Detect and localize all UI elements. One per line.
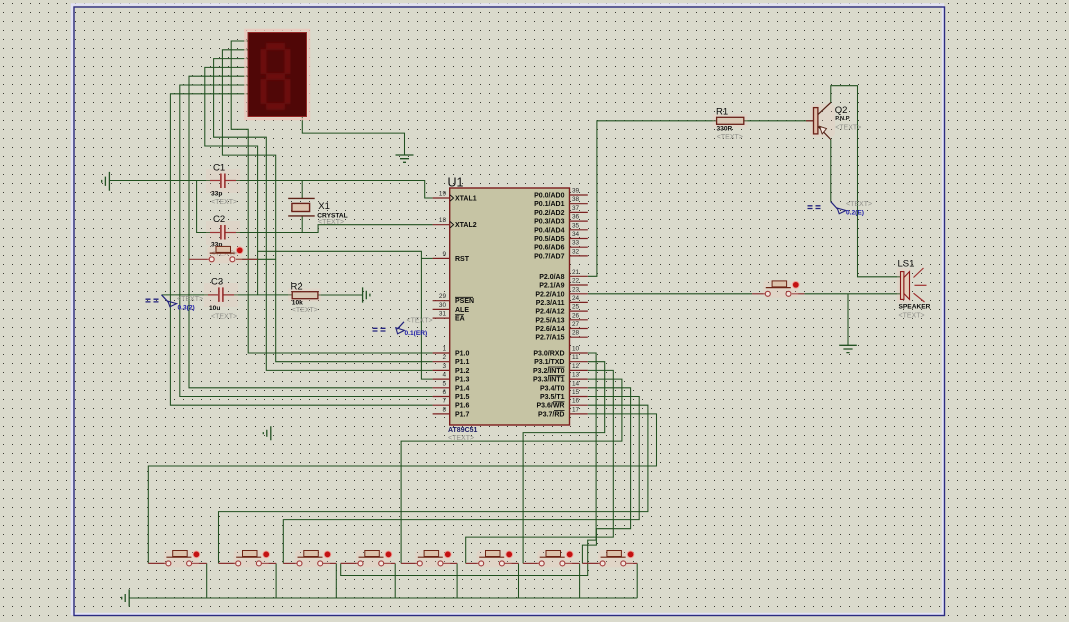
svg-text:U1: U1	[448, 176, 464, 190]
svg-text:P3.7/RD: P3.7/RD	[538, 411, 564, 418]
sheet border frame	[74, 7, 945, 616]
svg-text:P2.2/A10: P2.2/A10	[535, 291, 564, 298]
wire Q2 emitter probe stub	[830, 140, 832, 202]
svg-text:28: 28	[572, 330, 580, 337]
svg-text:P1.2: P1.2	[455, 368, 470, 375]
svg-text:P2.0/A8: P2.0/A8	[539, 274, 564, 281]
svg-text:<TEXT>: <TEXT>	[835, 124, 861, 131]
svg-text:P0.6/AD6: P0.6/AD6	[534, 245, 564, 252]
svg-text:30: 30	[439, 302, 447, 309]
7-segment display DS1	[246, 30, 310, 119]
wire button6 ground drop	[518, 563, 520, 598]
ground under display	[396, 155, 414, 162]
svg-text:0.1(ER): 0.1(ER)	[405, 330, 428, 337]
svg-text:23: 23	[572, 286, 580, 293]
wire P3.1 to button7	[523, 362, 605, 564]
wire display segment f to P1.5	[180, 85, 433, 397]
wire display segment g to P1.6	[170, 94, 432, 405]
capacitor C1	[206, 163, 240, 206]
wire button3 leads	[283, 562, 296, 564]
wire button8 ground drop	[636, 563, 638, 598]
svg-text:<TEXT>: <TEXT>	[292, 307, 318, 314]
voltage probe 0.1(ER)	[373, 317, 433, 337]
wire P3.2 to button6	[466, 370, 614, 563]
svg-text:27: 27	[572, 321, 580, 328]
push button S10	[598, 550, 634, 568]
svg-text:C1: C1	[213, 163, 225, 174]
svg-text:P1.5: P1.5	[455, 394, 470, 401]
svg-text:33: 33	[572, 240, 580, 247]
svg-text:SPEAKER: SPEAKER	[899, 304, 931, 311]
wire button8 leads	[582, 562, 599, 564]
push button S9	[537, 550, 573, 568]
svg-text:10: 10	[572, 346, 580, 353]
push button S1 reset	[207, 246, 243, 264]
svg-text:P0.2/AD2: P0.2/AD2	[534, 210, 564, 217]
voltage probe 0.2(E)	[808, 201, 873, 217]
svg-text:P.N.P: P.N.P	[835, 116, 850, 122]
svg-text:16: 16	[572, 398, 580, 405]
svg-text:26: 26	[572, 312, 580, 319]
svg-text:7: 7	[442, 398, 446, 405]
wire reset button left lead	[189, 258, 209, 260]
wire C1 right to XTAL1	[225, 181, 432, 199]
ground under speaker net	[839, 345, 857, 352]
ground right of R2	[363, 287, 370, 302]
svg-text:P1.6: P1.6	[455, 403, 470, 410]
svg-text:AT89C51: AT89C51	[448, 427, 478, 434]
wire button B to speaker bottom	[804, 293, 900, 295]
svg-text:P3.3/INT1: P3.3/INT1	[533, 377, 565, 384]
wire R1 to Q2 base	[743, 120, 806, 122]
svg-text:18: 18	[439, 217, 447, 224]
svg-text:2: 2	[442, 354, 446, 361]
svg-text:P3.6/WR: P3.6/WR	[536, 403, 564, 410]
wire display segment b to P1.1	[222, 50, 432, 362]
svg-text:P0.1/AD1: P0.1/AD1	[534, 201, 564, 208]
svg-text:RST: RST	[455, 256, 470, 263]
svg-text:P3.1/TXD: P3.1/TXD	[534, 359, 564, 366]
svg-text:P2.5/A13: P2.5/A13	[535, 317, 564, 324]
wire P2.0 to R1	[588, 121, 717, 276]
wire button5 leads	[401, 562, 417, 564]
wire P3.7 to button1	[148, 414, 656, 564]
resistor R1	[713, 107, 748, 142]
svg-text:P0.5/AD5: P0.5/AD5	[534, 236, 564, 243]
svg-text:<TEXT>: <TEXT>	[318, 219, 344, 226]
wire display segment a to P1.0	[231, 41, 432, 353]
wire crystal bottom lead	[301, 216, 303, 233]
wire P3.0 to button4	[341, 353, 596, 576]
svg-text:<TEXT>: <TEXT>	[846, 201, 872, 208]
svg-text:32: 32	[572, 248, 580, 255]
svg-text:P2.7/A15: P2.7/A15	[535, 335, 564, 342]
svg-text:P2.1/A9: P2.1/A9	[539, 283, 564, 290]
svg-text:P3.0/RXD: P3.0/RXD	[533, 351, 564, 358]
microcontroller U1 AT89C51	[433, 176, 588, 443]
svg-text:<TEXT>: <TEXT>	[211, 199, 237, 206]
wire speaker button left lead	[752, 293, 765, 295]
wire Q2 collector to speaker top	[831, 86, 901, 277]
svg-text:8: 8	[442, 406, 446, 413]
wire P3.3 to button5	[401, 379, 622, 563]
wire speaker button right lead	[792, 293, 805, 295]
wire button2 leads	[219, 562, 236, 564]
wire P3.6 to button2	[219, 405, 648, 563]
svg-text:21: 21	[572, 269, 580, 276]
svg-text:Q2: Q2	[835, 105, 848, 116]
svg-text:P2.4/A12: P2.4/A12	[535, 309, 564, 316]
wire button4 ground drop	[394, 563, 396, 598]
wire C2 right to XTAL2	[225, 225, 432, 233]
svg-text:P3.2/INT0: P3.2/INT0	[533, 368, 565, 375]
svg-text:33p: 33p	[211, 191, 222, 198]
wire display common to ground	[302, 117, 404, 156]
wire C2 to C1 net	[197, 181, 220, 233]
wire P3.4 to button8	[582, 388, 630, 564]
transistor Q2	[806, 103, 861, 140]
svg-text:38: 38	[572, 196, 580, 203]
svg-text:P0.4/AD4: P0.4/AD4	[534, 227, 564, 234]
svg-text:R1: R1	[716, 107, 728, 118]
wire button5 ground drop	[456, 563, 458, 598]
svg-text:P2.6/A14: P2.6/A14	[535, 326, 564, 333]
svg-text:14: 14	[572, 380, 580, 387]
svg-text:XTAL2: XTAL2	[455, 222, 477, 229]
wire button6 leads	[466, 562, 479, 564]
svg-text:15: 15	[572, 389, 580, 396]
svg-text:<TEXT>: <TEXT>	[717, 134, 743, 141]
svg-text:0.3(2): 0.3(2)	[178, 305, 195, 312]
wire button A cross link	[236, 258, 276, 260]
svg-text:4: 4	[442, 372, 446, 379]
svg-text:29: 29	[439, 293, 447, 300]
svg-text:<TEXT>: <TEXT>	[211, 313, 237, 320]
wire reset button right lead	[236, 258, 258, 260]
wire P2.2 to button B	[588, 293, 752, 295]
wire C3 right to R2	[224, 294, 292, 296]
push button S4	[234, 550, 270, 568]
svg-text:P0.3/AD3: P0.3/AD3	[534, 219, 564, 226]
svg-text:<TEXT>: <TEXT>	[899, 313, 925, 320]
svg-text:10u: 10u	[209, 305, 220, 312]
svg-text:1: 1	[442, 346, 446, 353]
wire crystal top lead	[301, 181, 303, 199]
wire button4 leads	[341, 562, 358, 564]
svg-text:330R: 330R	[717, 126, 733, 133]
crystal X1	[288, 198, 348, 226]
svg-text:25: 25	[572, 304, 580, 311]
speaker LS1	[897, 259, 931, 320]
wire bottom ground rail	[129, 597, 637, 599]
ground bottom left rail	[122, 589, 130, 606]
svg-text:10k: 10k	[292, 300, 303, 307]
push button S7	[415, 550, 451, 568]
svg-text:P2.3/A11: P2.3/A11	[536, 300, 565, 307]
wire P3.5 to button3	[283, 397, 639, 564]
svg-text:<TEXT>: <TEXT>	[407, 317, 433, 324]
push button S3	[164, 550, 200, 568]
svg-text:37: 37	[572, 205, 580, 212]
svg-text:P1.4: P1.4	[455, 385, 470, 392]
svg-text:9: 9	[442, 251, 446, 258]
wire display segment e to P1.4	[189, 76, 433, 388]
wire display segment d to RST node	[205, 67, 258, 295]
wire button7 leads	[523, 562, 539, 564]
svg-text:39: 39	[572, 188, 580, 195]
svg-text:11: 11	[572, 354, 579, 361]
wire C3 left segment	[162, 294, 218, 296]
push button S6	[356, 550, 392, 568]
svg-text:36: 36	[572, 214, 580, 221]
svg-text:P1.7: P1.7	[455, 411, 470, 418]
svg-text:EA: EA	[455, 316, 465, 323]
svg-text:XTAL1: XTAL1	[455, 196, 477, 203]
voltage probe 0.3(2)	[146, 295, 204, 312]
svg-text:31: 31	[439, 311, 447, 318]
push button S5	[295, 550, 331, 568]
svg-text:P0.0/AD0: P0.0/AD0	[534, 193, 564, 200]
svg-text:P1.0: P1.0	[455, 351, 470, 358]
svg-text:<TEXT>: <TEXT>	[448, 435, 474, 442]
push button S8	[477, 550, 513, 568]
svg-text:3: 3	[442, 363, 446, 370]
svg-text:P3.5/T1: P3.5/T1	[540, 394, 565, 401]
svg-text:17: 17	[572, 406, 580, 413]
svg-text:C2: C2	[213, 214, 225, 225]
svg-text:35: 35	[572, 222, 580, 229]
wire button2 ground drop	[275, 563, 277, 598]
svg-text:12: 12	[572, 363, 580, 370]
wire button7 ground drop	[579, 563, 581, 598]
svg-text:PSEN: PSEN	[455, 298, 474, 305]
wire button1 ground drop	[206, 563, 208, 598]
svg-text:P1.1: P1.1	[455, 359, 470, 366]
svg-text:P1.3: P1.3	[455, 377, 470, 384]
svg-text:6: 6	[442, 389, 446, 396]
capacitor C3	[204, 276, 238, 320]
wire button3 ground drop	[335, 563, 337, 598]
ground floating below chip	[263, 426, 271, 440]
wire button1 leads	[148, 562, 165, 564]
svg-text:19: 19	[439, 191, 447, 198]
svg-text:0.2(E): 0.2(E)	[846, 210, 864, 217]
svg-text:24: 24	[572, 295, 580, 302]
svg-text:<TEXT>: <TEXT>	[177, 296, 203, 303]
capacitor C2	[206, 214, 240, 258]
svg-text:22: 22	[572, 278, 580, 285]
wire RST stub link	[421, 257, 432, 259]
svg-text:5: 5	[442, 380, 446, 387]
svg-text:P3.4/T0: P3.4/T0	[540, 385, 565, 392]
svg-text:R2: R2	[291, 282, 303, 293]
wire R2 right to ground	[318, 294, 363, 296]
svg-text:13: 13	[572, 372, 580, 379]
wire ground to C1 left	[109, 180, 220, 182]
svg-text:34: 34	[572, 231, 580, 238]
svg-text:X1: X1	[318, 201, 330, 212]
sheet border frame highlight	[72, 5, 943, 615]
svg-text:ALE: ALE	[455, 307, 469, 314]
wire display segment c to P1.2	[214, 59, 433, 371]
push button S2 speaker line	[763, 280, 799, 298]
svg-text:P0.7/AD7: P0.7/AD7	[534, 253, 564, 260]
ground left of C1 net	[102, 172, 110, 191]
wire RST branch to pin9 and P1.3	[258, 251, 433, 379]
resistor R2	[288, 282, 321, 315]
svg-text:LS1: LS1	[898, 259, 915, 270]
svg-text:C3: C3	[211, 276, 223, 287]
wire speaker net ground tap	[847, 294, 849, 346]
